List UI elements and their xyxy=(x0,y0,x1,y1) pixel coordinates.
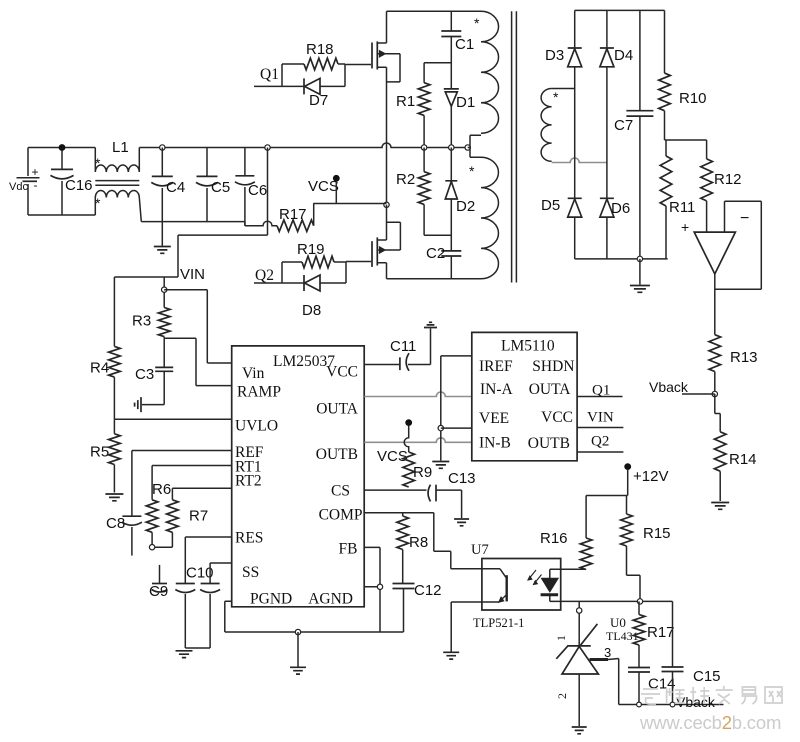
wire primary bottom rail xyxy=(387,278,482,280)
node Q1 drive label xyxy=(260,66,279,83)
svg-text:D3: D3 xyxy=(545,47,564,64)
resistor R15 xyxy=(621,496,671,602)
svg-text:C9: C9 xyxy=(149,583,168,600)
capacitor C10 xyxy=(175,565,213,649)
wire Q1 source to VCS ring xyxy=(386,67,388,203)
resistor R12 xyxy=(701,140,742,232)
svg-text:R8: R8 xyxy=(409,534,428,551)
wire OUTB to Q2 xyxy=(577,434,623,453)
node VEE junction xyxy=(438,425,443,430)
wire IREF to ground xyxy=(441,356,472,461)
ground C11 (inverted) xyxy=(424,322,437,327)
wire SS pin xyxy=(210,563,232,584)
svg-text:+: + xyxy=(681,219,689,235)
wire op-amp output xyxy=(714,274,716,335)
svg-text:R1: R1 xyxy=(396,93,415,110)
capacitor C3 xyxy=(135,338,173,404)
capacitor C12 xyxy=(393,582,442,632)
svg-text:Vin: Vin xyxy=(242,365,265,382)
svg-text:R10: R10 xyxy=(679,90,707,107)
node clamp mid C1 xyxy=(449,145,454,150)
wire Q1 gate xyxy=(345,65,371,87)
svg-text:VEE: VEE xyxy=(479,410,509,427)
svg-text:D1: D1 xyxy=(456,94,475,111)
resistor R5 xyxy=(90,419,120,492)
svg-text:Vback: Vback xyxy=(649,379,689,395)
svg-text:Q2: Q2 xyxy=(255,267,274,284)
svg-text:U7: U7 xyxy=(471,542,489,558)
svg-text:C13: C13 xyxy=(448,470,476,487)
svg-text:R6: R6 xyxy=(152,481,171,498)
svg-text:3: 3 xyxy=(604,645,611,660)
capacitor C8 xyxy=(106,515,142,556)
svg-text:R5: R5 xyxy=(90,444,109,461)
node C15 bottom xyxy=(670,702,675,707)
resistor R3 xyxy=(132,292,170,338)
svg-text:OUTB: OUTB xyxy=(528,435,570,452)
transistor Q1 (MOSFET) xyxy=(372,11,400,82)
wire COMP to opto xyxy=(434,513,482,569)
ground C3 (sideways) xyxy=(135,397,141,412)
svg-text:R11: R11 xyxy=(669,199,695,216)
svg-text:R12: R12 xyxy=(714,171,742,188)
wire bottom input rail xyxy=(28,214,95,216)
node +12V xyxy=(624,463,668,485)
svg-text:C11: C11 xyxy=(390,338,416,355)
node R6/R7 junction xyxy=(149,545,154,550)
svg-text:VCC: VCC xyxy=(326,364,358,381)
node VCS2 xyxy=(377,419,412,465)
diode D4 xyxy=(600,10,633,198)
resistor R11 xyxy=(660,140,695,259)
capacitor C15 xyxy=(662,601,721,704)
svg-text:-: - xyxy=(34,178,38,192)
wire secondary bottom tap xyxy=(552,158,607,163)
resistor R18 xyxy=(282,41,345,86)
svg-text:C12: C12 xyxy=(414,582,442,599)
svg-text:*: * xyxy=(553,89,559,105)
wire Vin pin xyxy=(164,290,232,363)
wire OUTA gray xyxy=(364,392,472,397)
resistor R7 xyxy=(152,500,208,547)
wire analog ground rail xyxy=(225,631,404,633)
wire R16 to LED anode xyxy=(550,568,586,570)
svg-text:IN-A: IN-A xyxy=(480,381,514,398)
diode D2 xyxy=(445,148,475,251)
svg-text:COMP: COMP xyxy=(319,507,363,524)
wire divider mid xyxy=(665,139,707,141)
svg-text:R17: R17 xyxy=(279,206,307,223)
svg-text:OUTA: OUTA xyxy=(316,401,359,418)
svg-text:U0: U0 xyxy=(610,615,626,630)
shunt reference U8 TL431 xyxy=(554,615,639,699)
wire RT2 pin xyxy=(172,488,231,500)
capacitor C1 xyxy=(441,11,474,89)
optocoupler U7 box xyxy=(471,542,561,630)
capacitor C14 xyxy=(628,668,676,705)
resistor R9 xyxy=(403,452,432,487)
svg-text:Q1: Q1 xyxy=(260,66,279,83)
ground TL431 xyxy=(572,727,587,734)
svg-text:R14: R14 xyxy=(729,451,757,468)
optocoupler U7 LED xyxy=(541,569,561,601)
capacitor C13 xyxy=(428,470,475,518)
svg-text:FB: FB xyxy=(339,541,358,558)
svg-text:R13: R13 xyxy=(730,349,758,366)
svg-text:C2: C2 xyxy=(426,245,445,262)
node TL431 cathode junction xyxy=(577,608,582,613)
svg-text:C16: C16 xyxy=(65,177,93,194)
svg-text:www.cecb2b.com: www.cecb2b.com xyxy=(639,712,781,733)
svg-text:SHDN: SHDN xyxy=(532,358,574,375)
svg-text:VCS: VCS xyxy=(377,448,408,465)
wire FB pin xyxy=(364,547,380,632)
svg-text:Vdc: Vdc xyxy=(9,181,28,193)
svg-text:*: * xyxy=(95,195,101,211)
resistor R10 xyxy=(659,10,707,140)
watermark url xyxy=(639,712,781,733)
ground R14 xyxy=(711,503,729,510)
svg-text:R17: R17 xyxy=(647,624,675,641)
svg-text:−: − xyxy=(740,210,749,227)
node C14 bottom xyxy=(637,702,642,707)
wire TL431 anode xyxy=(578,674,580,726)
svg-text:VIN: VIN xyxy=(587,410,614,426)
op-amp U2 xyxy=(681,210,749,274)
diode D7 xyxy=(282,78,345,109)
svg-text:PGND: PGND xyxy=(250,591,292,608)
resistor R16 xyxy=(540,496,592,570)
wire VCC pin to C11 xyxy=(364,364,400,366)
svg-text:D8: D8 xyxy=(302,302,321,319)
capacitor C6 xyxy=(235,148,267,226)
svg-text:R19: R19 xyxy=(297,241,325,258)
wire secondary top tap xyxy=(552,88,575,90)
svg-text:C1: C1 xyxy=(455,36,474,53)
capacitor C5 xyxy=(196,148,230,222)
transformer core xyxy=(512,11,517,282)
node C4 junction xyxy=(160,145,165,150)
node Q1/Q2 source junction xyxy=(384,202,389,207)
svg-text:Q1: Q1 xyxy=(592,383,610,399)
svg-text:AGND: AGND xyxy=(308,591,353,608)
transformer primary winding xyxy=(469,11,499,279)
wire center tap jogs xyxy=(468,135,481,157)
optocoupler U7 phototransistor xyxy=(482,569,507,602)
svg-text:R7: R7 xyxy=(189,508,208,525)
svg-text:D6: D6 xyxy=(611,200,630,217)
wire UVLO pin xyxy=(114,418,231,420)
resistor R19 xyxy=(282,241,346,283)
transformer secondary winding xyxy=(541,89,559,162)
wire filter bottom rail xyxy=(141,221,245,223)
node R15 junction xyxy=(637,599,642,604)
diode D8 xyxy=(282,275,346,319)
ground C10 xyxy=(176,651,193,658)
svg-text:IN-B: IN-B xyxy=(479,435,511,452)
svg-text:+: + xyxy=(32,165,39,179)
svg-text:VCS: VCS xyxy=(308,178,339,195)
wire primary top rail xyxy=(387,10,482,12)
wire R3 top stub xyxy=(163,277,165,287)
svg-text:UVLO: UVLO xyxy=(235,418,278,435)
ground secondary xyxy=(630,259,650,292)
svg-text:D4: D4 xyxy=(614,47,633,64)
svg-text:C5: C5 xyxy=(211,179,230,196)
svg-text:R9: R9 xyxy=(413,464,432,481)
wire secondary bottom rail xyxy=(575,258,668,260)
wire RT1 pin xyxy=(152,466,232,500)
watermark graphics xyxy=(641,686,782,704)
svg-text:VCC: VCC xyxy=(541,409,573,426)
wire OUTB gray xyxy=(364,438,472,443)
svg-text:L1: L1 xyxy=(112,139,129,156)
node Vback tap xyxy=(649,379,718,397)
svg-text:R18: R18 xyxy=(306,41,334,58)
svg-text:*: * xyxy=(469,163,475,179)
ground C13 xyxy=(454,519,469,526)
resistor R6 xyxy=(146,481,171,547)
resistor R2 xyxy=(396,148,451,236)
node FB junction xyxy=(377,584,382,589)
wire OUTA to Q1 xyxy=(577,383,622,399)
svg-text:D7: D7 xyxy=(309,92,328,109)
resistor R17 (feedback) xyxy=(633,601,674,667)
node clamp mid R1 xyxy=(421,145,426,150)
node R3 junction xyxy=(162,287,167,292)
wire Q1 input xyxy=(254,85,282,87)
svg-text:R4: R4 xyxy=(90,360,109,377)
resistor R8 xyxy=(397,513,428,584)
wire RES pin xyxy=(185,537,231,584)
svg-text:1: 1 xyxy=(554,635,568,641)
svg-text:Vback: Vback xyxy=(676,694,716,710)
transistor Q2 (MOSFET) xyxy=(372,205,400,279)
svg-text:R15: R15 xyxy=(643,525,671,542)
svg-text:IREF: IREF xyxy=(479,358,513,375)
wire VIN feed xyxy=(114,148,267,278)
capacitor C2 xyxy=(426,245,461,279)
ground LM5110 xyxy=(432,462,449,469)
svg-text:LM5110: LM5110 xyxy=(501,338,555,355)
svg-text:*: * xyxy=(474,15,480,31)
svg-text:D2: D2 xyxy=(456,198,475,215)
svg-text:RT2: RT2 xyxy=(235,473,262,490)
wire VEE pin xyxy=(441,427,472,429)
capacitor C10b (SS) xyxy=(185,584,220,649)
svg-text:OUTB: OUTB xyxy=(316,446,358,463)
wire PGND pin xyxy=(225,601,232,632)
diode D5 xyxy=(541,197,582,259)
wire top input rail xyxy=(28,147,95,149)
node winding tap xyxy=(465,145,470,150)
svg-text:R16: R16 xyxy=(540,530,568,547)
node VIN label xyxy=(180,266,205,283)
ground opto xyxy=(443,652,459,659)
svg-text:2: 2 xyxy=(555,693,569,699)
inductor L1 (common-mode choke) xyxy=(95,139,141,222)
wire opto emitter to ground xyxy=(451,602,482,652)
op-amp U1 LM25037 box xyxy=(232,346,365,608)
capacitor C16 xyxy=(50,144,92,215)
resistor R17 (snubber) xyxy=(245,204,314,232)
svg-text:C4: C4 xyxy=(166,179,185,196)
battery Vdc xyxy=(9,148,40,216)
svg-text:C7: C7 xyxy=(614,117,633,134)
wire feedback node W1 xyxy=(561,600,673,602)
optocoupler light arrows xyxy=(528,570,542,585)
svg-text:RES: RES xyxy=(235,530,263,547)
svg-text:C15: C15 xyxy=(693,668,721,685)
ground filter xyxy=(154,222,171,254)
svg-text:CS: CS xyxy=(331,483,350,500)
wire REF pin xyxy=(132,451,232,517)
node Q2 drive label xyxy=(255,267,274,284)
wire TL431 ref pin 3 xyxy=(590,645,724,705)
svg-text:Q2: Q2 xyxy=(591,434,609,450)
capacitor C9 xyxy=(149,565,168,600)
node VCS xyxy=(308,175,340,195)
svg-text:TLP521-1: TLP521-1 xyxy=(473,616,524,630)
svg-text:C3: C3 xyxy=(135,366,154,383)
node secondary gnd junction xyxy=(637,256,642,261)
svg-text:*: * xyxy=(95,155,101,171)
svg-text:D5: D5 xyxy=(541,197,560,214)
wire TL431 cathode xyxy=(578,601,580,646)
capacitor C7 xyxy=(614,10,653,259)
wire Q2 input xyxy=(254,282,282,284)
node Vback out xyxy=(676,694,716,710)
capacitor C11 xyxy=(390,329,431,371)
svg-text:C14: C14 xyxy=(648,676,676,693)
svg-text:C8: C8 xyxy=(106,515,125,532)
node ground rail junction xyxy=(295,629,300,634)
svg-text:R2: R2 xyxy=(396,171,415,188)
svg-text:+12V: +12V xyxy=(633,468,668,485)
svg-text:OUTA: OUTA xyxy=(529,381,572,398)
resistor R1 xyxy=(396,63,451,148)
svg-text:SS: SS xyxy=(242,564,259,581)
wire +12V feed xyxy=(586,469,628,496)
svg-text:R3: R3 xyxy=(132,313,151,330)
wire RAMP pin xyxy=(164,338,232,385)
wire COMP pin xyxy=(364,512,434,514)
diode D6 xyxy=(600,198,630,259)
resistor R13 xyxy=(709,335,758,394)
wire Q2 gate xyxy=(346,262,371,284)
svg-text:VIN: VIN xyxy=(180,266,205,283)
resistor R14 xyxy=(714,394,756,501)
op-amp U3 LM5110 box xyxy=(472,332,577,460)
wire Vback label stub xyxy=(682,393,715,395)
diode D1 xyxy=(444,89,475,148)
wire VCC to VIN xyxy=(577,410,623,428)
svg-text:C6: C6 xyxy=(248,182,267,199)
wire CS pin xyxy=(364,489,426,491)
wire op-amp feedback xyxy=(715,201,762,289)
wire filtered rail xyxy=(139,143,469,148)
wire VCS stub xyxy=(335,181,337,204)
wire secondary top rail xyxy=(575,9,665,11)
ground R5 xyxy=(105,494,123,501)
ground rail xyxy=(290,632,306,674)
svg-text:RAMP: RAMP xyxy=(237,384,281,401)
diode D3 xyxy=(545,10,582,198)
node C6 junction xyxy=(265,145,270,150)
wire VCS to source junction xyxy=(313,203,386,205)
wire VCS2 stub xyxy=(404,426,409,452)
capacitor C4 xyxy=(151,148,185,222)
resistor R4 xyxy=(90,277,120,419)
